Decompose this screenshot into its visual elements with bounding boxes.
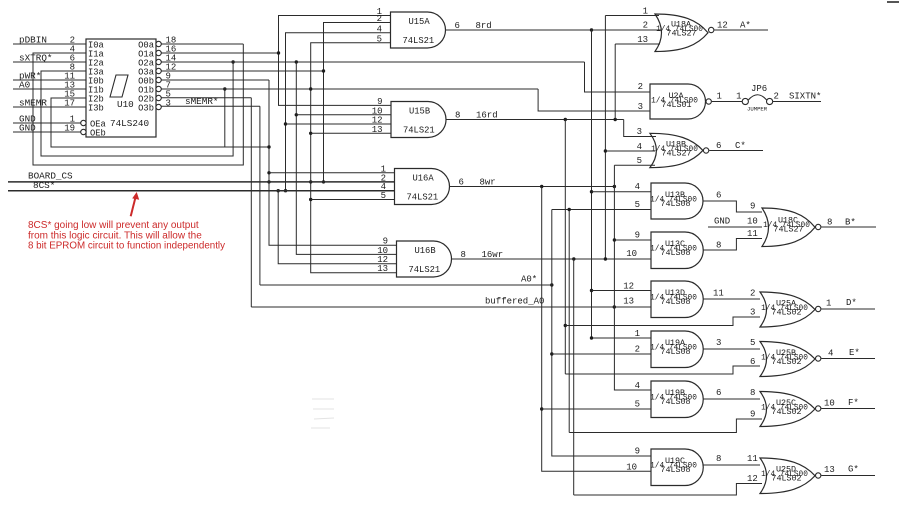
junction 16rd x615 — [614, 118, 617, 121]
wire U18A pin 1 — [605, 15, 659, 17]
svg-text:74LS21: 74LS21 — [407, 193, 439, 203]
wire 16wr riser to U25D feed — [573, 259, 575, 495]
svg-text:10: 10 — [824, 399, 835, 409]
svg-text:A0*: A0* — [521, 275, 537, 285]
svg-text:GND: GND — [714, 217, 730, 227]
svg-text:74LS02: 74LS02 — [771, 407, 801, 417]
svg-text:74LS21: 74LS21 — [403, 36, 435, 46]
wire 16rd riser — [564, 120, 566, 375]
svg-text:F*: F* — [848, 398, 859, 408]
AND gate U15B 74LS21 — [391, 102, 446, 138]
svg-text:13: 13 — [377, 264, 388, 274]
U10 OEa bubble — [81, 120, 86, 125]
wire G* output — [821, 475, 875, 477]
wire U15B pin 13 — [311, 132, 391, 134]
junction U16A pin1 x269 — [267, 171, 270, 174]
faint erased ghost artifact — [311, 399, 334, 428]
svg-text:GND: GND — [19, 123, 36, 134]
junction BOARD_CS x269 — [267, 180, 270, 183]
U10 output bubble pin 16 — [156, 50, 161, 55]
svg-text:12: 12 — [717, 21, 728, 31]
svg-text:5: 5 — [637, 156, 642, 166]
svg-text:8CS* going low will prevent an: 8CS* going low will prevent any output — [28, 220, 199, 231]
wire pWR* to U10 — [13, 79, 86, 81]
junction 8wr x542 — [540, 185, 543, 188]
svg-text:11: 11 — [747, 229, 758, 239]
svg-text:U15A: U15A — [409, 17, 431, 27]
wire GND to U18C pin10 — [708, 226, 762, 228]
junction row16 x278 — [277, 51, 280, 54]
wire U19B output to U25C pin8 — [703, 398, 760, 400]
junction BOARD_CS x310 — [309, 180, 312, 183]
wire U16B output 16wr — [452, 258, 607, 260]
JP6 pad 1 — [742, 98, 748, 104]
svg-text:74LS08: 74LS08 — [660, 199, 690, 209]
junction 8rd x591 — [590, 28, 593, 31]
svg-text:8rd: 8rd — [476, 21, 492, 31]
wire riser x569 to U25C feed — [568, 210, 570, 433]
wire A* output — [714, 29, 768, 31]
AND gate U13B 74LS08 — [651, 183, 703, 219]
svg-text:A0: A0 — [19, 80, 30, 91]
wire U25D pin12 feed — [574, 484, 762, 496]
AND gate U19B 74LS08 — [651, 381, 703, 418]
svg-text:9: 9 — [635, 447, 640, 457]
junction row O2a loop — [231, 60, 234, 63]
AND gate U19A 74LS08 — [651, 331, 703, 368]
svg-text:5: 5 — [750, 338, 755, 348]
svg-text:8wr: 8wr — [480, 178, 496, 188]
svg-text:buffered_A0: buffered_A0 — [485, 297, 544, 307]
junction row12 x323 — [322, 69, 325, 72]
svg-text:JP6: JP6 — [751, 84, 767, 94]
AND gate U15A 74LS21 — [391, 12, 446, 48]
junction BOARD_CS x323 — [322, 180, 325, 183]
wire riser x614 U18B pin5 to U19B pin4 — [614, 165, 651, 390]
svg-text:U15B: U15B — [409, 107, 430, 117]
wire U15A output 8rd — [446, 29, 656, 31]
wire U19B pin 5 — [542, 408, 651, 410]
svg-text:6: 6 — [716, 191, 721, 201]
svg-text:5: 5 — [377, 34, 382, 44]
svg-text:sXTRQ*: sXTRQ* — [19, 53, 52, 64]
U25C output bubble — [816, 406, 821, 411]
NOR gate U18B 74LS27 — [650, 133, 703, 167]
junction U16A pin5 x310 — [309, 198, 312, 201]
svg-text:8: 8 — [827, 218, 832, 228]
U25D output bubble — [816, 473, 821, 478]
wire row3 to A0* riser — [259, 106, 261, 285]
wire U13D pin 12 — [592, 290, 652, 292]
wire U13B output to U18C pin9 — [703, 201, 762, 212]
junction U15B pin12 x285 — [284, 122, 287, 125]
wire U2A pin2 feed from row14 — [585, 62, 651, 92]
svg-text:8: 8 — [716, 241, 721, 251]
svg-text:4: 4 — [828, 349, 833, 359]
wire GND to OEb — [13, 131, 81, 133]
svg-text:6: 6 — [716, 141, 721, 151]
wire D* output — [821, 308, 875, 310]
U10 buffer symbol — [110, 75, 128, 97]
U10 output bubble pin 5 — [156, 95, 161, 100]
U10 output bubble pin 12 — [156, 68, 161, 73]
wire U19A output to U25B pin5 — [703, 348, 760, 350]
AND gate U13D 74LS08 — [651, 281, 703, 318]
svg-text:1: 1 — [826, 299, 831, 309]
svg-text:E*: E* — [849, 348, 860, 358]
svg-text:A*: A* — [740, 21, 751, 31]
svg-text:5: 5 — [635, 200, 640, 210]
svg-text:9: 9 — [635, 231, 640, 241]
wire row O2b pin 5 — [161, 97, 251, 99]
NOR gate U25B 74LS02 — [760, 342, 815, 377]
svg-text:I3b: I3b — [88, 104, 104, 114]
svg-text:3: 3 — [716, 338, 721, 348]
svg-text:13: 13 — [372, 125, 383, 135]
junction U13B pin5 wire x569 — [568, 208, 571, 211]
wire loopback O0a to I1a — [33, 44, 243, 165]
U2A output bubble — [706, 99, 711, 104]
wire loopback O1b to I2b — [51, 98, 269, 147]
wire A0* — [260, 284, 552, 286]
svg-text:16wr: 16wr — [482, 250, 504, 260]
wire 8CS* — [8, 190, 395, 192]
junction 16wr U13C pin10 — [604, 257, 607, 260]
junction A0* x552 — [550, 283, 553, 286]
svg-text:3: 3 — [166, 99, 171, 109]
wire U18A pin13 — [615, 43, 660, 45]
svg-text:2: 2 — [643, 21, 648, 31]
U10 output bubble pin 3 — [156, 104, 161, 109]
svg-text:74LS240: 74LS240 — [110, 118, 149, 129]
wire U15A pin2 riser — [324, 23, 391, 182]
junction 8CS* x278 — [277, 189, 280, 192]
wire BOARD_CS — [8, 181, 395, 183]
wire U2A pin3 feed from row7 — [538, 89, 650, 111]
wire U18B pin 5 — [614, 164, 655, 166]
svg-text:16rd: 16rd — [476, 111, 498, 121]
wire F* output — [821, 408, 875, 410]
svg-text:8: 8 — [455, 111, 460, 121]
red annotation arrow — [131, 197, 136, 217]
wire U25C pin9 feed — [569, 419, 762, 433]
wire sXTRQ* to U10 — [13, 61, 86, 63]
U25B output bubble — [816, 356, 821, 361]
wire U16A pin 1 — [269, 172, 395, 174]
svg-text:12: 12 — [747, 474, 758, 484]
junction buffered_A0 x614 — [613, 305, 616, 308]
NOR gate U18A 74LS27 — [655, 14, 708, 52]
svg-text:13: 13 — [824, 465, 835, 475]
svg-text:12: 12 — [623, 282, 634, 292]
wire U13C pin 9 — [614, 239, 651, 241]
wire 8CS* branch to U16B pin12 — [278, 191, 396, 264]
svg-text:74LS02: 74LS02 — [771, 357, 801, 367]
svg-text:10: 10 — [747, 217, 758, 227]
svg-text:74LS08: 74LS08 — [660, 297, 690, 307]
svg-text:10: 10 — [626, 462, 637, 472]
svg-text:pDBIN: pDBIN — [19, 35, 47, 46]
junction row14 at x296 — [295, 60, 298, 63]
svg-text:U16A: U16A — [413, 174, 435, 184]
U18B output bubble — [703, 148, 708, 153]
page border fragment top right — [887, 1, 899, 3]
svg-text:1: 1 — [717, 92, 722, 102]
svg-text:74LS02: 74LS02 — [771, 308, 801, 318]
svg-text:8CS*: 8CS* — [33, 180, 55, 191]
svg-text:74LS21: 74LS21 — [403, 126, 435, 136]
U10 output bubble pin 14 — [156, 59, 161, 64]
svg-text:74LS27: 74LS27 — [661, 149, 691, 159]
svg-text:3: 3 — [750, 308, 755, 318]
U10 output bubble pin 7 — [156, 86, 161, 91]
U10 OEb bubble — [81, 129, 86, 134]
NAND gate U2A 74LS01 — [650, 84, 706, 119]
wire 16rd corner to U18B pin3 — [624, 120, 656, 137]
svg-text:SIXTN*: SIXTN* — [789, 92, 821, 102]
svg-text:74LS21: 74LS21 — [409, 265, 441, 275]
junction row7 x310 — [309, 87, 312, 90]
wire U18A pin1 riser to U13C pin10 — [605, 16, 651, 260]
svg-text:U16B: U16B — [415, 246, 436, 256]
wire U25B pin6 feed — [565, 366, 760, 374]
svg-text:74LS02: 74LS02 — [771, 474, 801, 484]
junction 8rd riser U13D pin12 — [590, 289, 593, 292]
wire 8rd riser to U13B U13D U19A — [592, 30, 652, 338]
junction 8rd riser U13B pin4 — [590, 190, 593, 193]
svg-text:9: 9 — [750, 202, 755, 212]
wire B* output — [821, 226, 876, 228]
wire U15B output 16rd — [446, 119, 624, 121]
AND gate U19C 74LS08 — [651, 449, 703, 486]
U18A output bubble — [709, 27, 714, 32]
junction loop1 x269 — [267, 145, 270, 148]
svg-text:6: 6 — [455, 21, 460, 31]
AND gate U13C 74LS08 — [651, 232, 703, 269]
svg-text:74LS08: 74LS08 — [660, 248, 690, 258]
wire row O0a pin 18 — [161, 43, 243, 45]
svg-text:74LS01: 74LS01 — [661, 100, 691, 110]
svg-text:5: 5 — [381, 191, 386, 201]
svg-text:OEb: OEb — [90, 129, 106, 139]
svg-text:74LS08: 74LS08 — [660, 397, 690, 407]
junction 16rd riser y325 — [564, 324, 567, 327]
U18C output bubble — [816, 224, 821, 229]
wire U19C output to U25D pin11 — [703, 464, 760, 466]
wire U13B pin 4 — [592, 191, 652, 193]
wire U19A pin 2 — [552, 353, 651, 355]
wire GND to OEa — [13, 122, 81, 124]
svg-text:74LS27: 74LS27 — [773, 225, 803, 235]
svg-text:8: 8 — [716, 454, 721, 464]
svg-text:5: 5 — [635, 400, 640, 410]
IC U10 74LS240 body — [86, 39, 156, 137]
wire U16A output 8wr — [450, 186, 616, 188]
JP6 pad 2 — [767, 98, 773, 104]
wire buffered_A0 — [251, 306, 651, 308]
svg-text:11: 11 — [713, 289, 724, 299]
NOR gate U18C 74LS27 — [762, 208, 815, 247]
svg-text:B*: B* — [845, 218, 856, 228]
svg-text:1: 1 — [736, 92, 741, 102]
wire row16 to U15A pin1 and U15B pin9 — [279, 16, 392, 106]
U25A output bubble — [816, 306, 821, 311]
wire pDBIN to U10 — [13, 43, 86, 45]
wire row O2a pin 14 to U2A — [161, 61, 585, 63]
svg-text:2: 2 — [635, 345, 640, 355]
wire loopback O2a to I3a — [41, 62, 233, 156]
svg-text:G*: G* — [848, 465, 859, 475]
wire E* output — [821, 358, 875, 360]
wire U15B pin 12 — [286, 123, 392, 125]
wire riser x310 U15A pin5 to U16B pin13 — [311, 43, 397, 273]
U10 output bubble pin 9 — [156, 77, 161, 82]
svg-text:10: 10 — [626, 249, 637, 259]
svg-text:2: 2 — [638, 82, 643, 92]
svg-text:3: 3 — [637, 127, 642, 137]
svg-text:74LS08: 74LS08 — [660, 465, 690, 475]
svg-text:8: 8 — [461, 250, 466, 260]
NOR gate U25A 74LS02 — [760, 292, 815, 327]
wire row14 branch to U16B pin10 — [296, 62, 396, 254]
NOR gate U25D 74LS02 — [760, 458, 815, 494]
svg-text:6: 6 — [459, 178, 464, 188]
junction 8wr riser U19B pin5 — [540, 407, 543, 410]
junction 8wr x614 — [613, 185, 616, 188]
wire U15B pin 10 — [296, 114, 391, 116]
wire A0* riser mid to U19C pin9 — [552, 210, 651, 457]
svg-text:4: 4 — [637, 142, 642, 152]
svg-text:4: 4 — [377, 24, 382, 34]
svg-text:D*: D* — [846, 298, 857, 308]
svg-text:C*: C* — [735, 141, 746, 151]
svg-text:2: 2 — [774, 92, 779, 102]
wire U13C output to U18C pin11 — [703, 239, 762, 251]
svg-text:JUMPER: JUMPER — [747, 106, 768, 113]
svg-text:1: 1 — [635, 329, 640, 339]
junction U15B pin10 x296 — [295, 113, 298, 116]
AND gate U16B 74LS21 — [397, 241, 452, 277]
wire U13D output to U25A pin2 — [703, 298, 760, 300]
wire C* output — [709, 150, 763, 152]
wire A0 to U10 — [13, 88, 86, 90]
wire U18A pin13 riser — [614, 44, 616, 120]
svg-text:6: 6 — [750, 357, 755, 367]
wire U18A pin 2 8rd — [592, 29, 662, 31]
wire row O0b pin 9 — [161, 79, 269, 81]
junction U13C pin9 x614 — [613, 238, 616, 241]
svg-text:6: 6 — [716, 388, 721, 398]
svg-text:2: 2 — [750, 289, 755, 299]
svg-text:8 bit EPROM circuit to functio: 8 bit EPROM circuit to function independ… — [28, 241, 225, 252]
wire row O3a pin 12 — [161, 70, 324, 72]
junction U15B pin13 x310 — [309, 132, 312, 135]
wire sMEMR to U10 — [13, 106, 86, 108]
svg-text:11: 11 — [747, 454, 758, 464]
svg-text:74LS27: 74LS27 — [666, 29, 696, 39]
wire U18B pin 4 — [605, 150, 655, 152]
junction A0* riser U19A pin2 — [550, 352, 553, 355]
wire U2A output — [712, 101, 743, 103]
svg-text:sMEMR*: sMEMR* — [185, 96, 218, 107]
wire row5 to buffered_A0 riser — [250, 98, 252, 307]
svg-text:4: 4 — [635, 381, 640, 391]
junction 8CS* x285 — [284, 189, 287, 192]
junction row O1b loop — [223, 87, 226, 90]
wire U13B pin 5 — [552, 209, 651, 211]
wire row O1b pin 7 long — [161, 88, 538, 90]
svg-text:4: 4 — [635, 182, 640, 192]
wire riser x269 row9 to U16B pin9 — [269, 80, 397, 245]
wire U15A pin4 riser x285 — [286, 33, 391, 191]
wire loopback O1b drop — [224, 89, 226, 147]
wire row O1a pin 16 — [161, 52, 279, 54]
wire SIXTN* — [773, 101, 821, 103]
wire U16A pin 5 — [311, 199, 395, 201]
svg-text:74LS08: 74LS08 — [660, 347, 690, 357]
NOR gate U25C 74LS02 — [760, 392, 815, 427]
junction U18B pin4 — [604, 149, 607, 152]
junction 16rd x565 — [564, 118, 567, 121]
svg-text:O3b: O3b — [138, 104, 154, 114]
junction U19A pin1 x591 — [590, 336, 593, 339]
U10 output bubble pin 18 — [156, 41, 161, 46]
wire 8wr riser to U19C pin10 — [542, 187, 651, 472]
wire U25A pin3 feed — [565, 317, 760, 326]
svg-text:8: 8 — [750, 388, 755, 398]
junction 16wr x573 — [572, 257, 575, 260]
AND gate U16A 74LS21 — [395, 169, 450, 205]
svg-text:9: 9 — [750, 410, 755, 420]
svg-text:2: 2 — [377, 14, 382, 24]
wire row O3b sMEMR* — [161, 105, 260, 107]
svg-text:1: 1 — [643, 7, 648, 17]
svg-text:U10: U10 — [117, 99, 134, 110]
svg-text:13: 13 — [623, 297, 634, 307]
